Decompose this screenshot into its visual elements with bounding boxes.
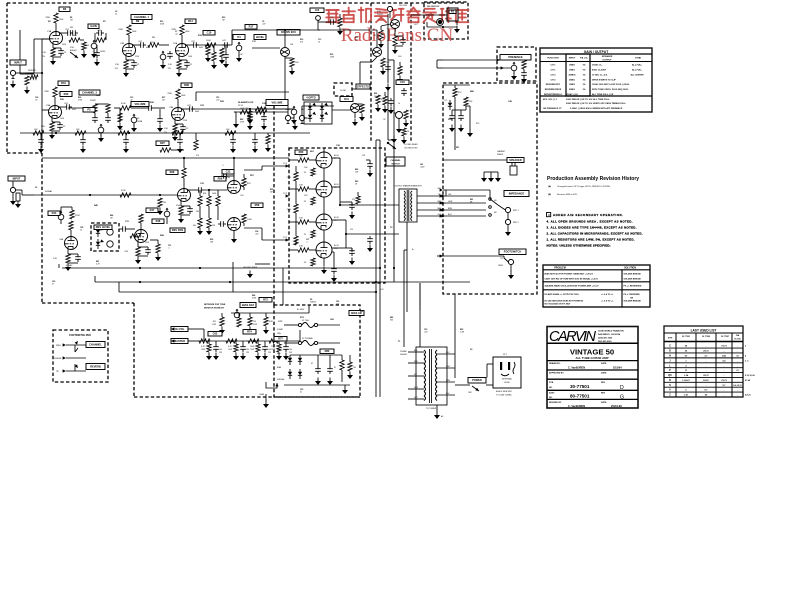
svg-text:(A): (A) <box>548 185 551 188</box>
ground tank shield <box>414 24 460 33</box>
svg-text:INPUT: INPUT <box>14 60 22 64</box>
svg-text:1MEG: 1MEG <box>569 70 575 72</box>
svg-text:63,67: 63,67 <box>703 380 709 382</box>
plate join wires power amp <box>332 158 399 248</box>
watermark chinese characters <box>326 8 468 23</box>
extra scatter labels 2 <box>35 10 473 394</box>
svg-text:100K: 100K <box>132 31 137 33</box>
svg-text:10: 10 <box>318 42 320 44</box>
label channel switch <box>386 157 405 166</box>
connector tank RCA block <box>411 8 458 28</box>
pull bright pot <box>70 45 106 66</box>
jack panel extra wires <box>446 106 490 199</box>
svg-text:R72: R72 <box>263 298 268 302</box>
tube V4A reverb recovery <box>53 221 81 271</box>
svg-text:C34: C34 <box>255 230 258 233</box>
svg-text:WITH TONE CIRCS. PLUS SEQ 10: WITH TONE CIRCS. PLUS SEQ 100% <box>592 89 628 91</box>
svg-text:10 VAC CL. A.S.: 10 VAC CL. A.S. <box>592 73 608 76</box>
svg-text:R27: R27 <box>160 141 165 145</box>
misc labels sprinkle <box>35 21 513 351</box>
jack J4 return <box>292 106 334 130</box>
resistor R2 bus shunt <box>157 198 166 215</box>
svg-text:V10: V10 <box>334 248 337 250</box>
svg-text:50/60HZ: 50/60HZ <box>400 354 408 356</box>
svg-text:R47: R47 <box>96 260 99 263</box>
capacitor C21 <box>146 105 165 111</box>
jack J1 input high <box>10 39 50 94</box>
svg-text:RING: RING <box>56 345 61 347</box>
labels tone network inputs <box>171 327 204 344</box>
svg-text:PHONO: PHONO <box>377 14 384 16</box>
svg-text:100Ω 1/2W: 100Ω 1/2W <box>258 108 267 110</box>
wire heater drops <box>300 267 381 283</box>
svg-text:.02: .02 <box>35 100 38 102</box>
svg-text:HUM BAL: HUM BAL <box>277 378 285 381</box>
svg-text:REVERB RET.: REVERB RET. <box>546 84 561 86</box>
svg-text:REV PAN: REV PAN <box>172 228 183 232</box>
svg-text:C12: C12 <box>330 17 333 19</box>
label tone boxes <box>208 311 364 342</box>
svg-text:30-77501: 30-77501 <box>682 336 690 338</box>
svg-text:R17: R17 <box>249 25 254 29</box>
svg-text:FERRITE: FERRITE <box>28 70 36 72</box>
svg-text:SWITCH: SWITCH <box>391 164 400 166</box>
svg-text:6.3VAC: 6.3VAC <box>66 264 73 267</box>
cabinet speaker connector <box>481 150 524 182</box>
svg-text:P6: P6 <box>137 118 139 120</box>
svg-text:16L7G24: 16L7G24 <box>399 5 408 7</box>
svg-text:VOLUME: VOLUME <box>271 100 282 104</box>
label GAIN <box>88 24 99 58</box>
tube V3B stage <box>164 83 200 141</box>
svg-text:NO LED INDICATOR DOES NOT POWE: NO LED INDICATOR DOES NOT POWER IN. <box>545 299 584 302</box>
svg-text:V1A: V1A <box>47 30 52 33</box>
text production assembly revision history <box>547 176 639 196</box>
power transformer T1 <box>408 347 455 410</box>
svg-text:100: 100 <box>219 349 222 351</box>
svg-text:8VAC CL/DIST: 8VAC CL/DIST <box>592 69 607 72</box>
svg-text:(B): (B) <box>548 194 551 196</box>
svg-text:100: 100 <box>353 367 356 369</box>
tube V10 EL34 output 4 <box>316 230 332 274</box>
svg-text:NO.: NO. <box>549 397 553 399</box>
svg-text:R46: R46 <box>110 214 113 217</box>
resistor R16 series <box>205 40 216 47</box>
svg-text:CH 1: CH 1 <box>551 70 557 72</box>
svg-text:22: 22 <box>115 14 117 16</box>
svg-text:R3: R3 <box>63 7 67 11</box>
svg-text:1/2W: 1/2W <box>271 349 275 351</box>
svg-text:1%: 1% <box>582 79 585 81</box>
svg-text:6,8,21: 6,8,21 <box>745 395 751 397</box>
svg-text:.1: .1 <box>222 165 224 167</box>
svg-text:100K: 100K <box>185 31 190 33</box>
svg-text:100K: 100K <box>59 19 64 21</box>
capacitor C40 snubber <box>346 248 355 265</box>
row2 extra grounds <box>114 108 253 132</box>
svg-text:20JUL98: 20JUL98 <box>611 404 622 408</box>
svg-text:Changed heater CKT & type CKTS: Changed heater CKT & type CKTS, PER ECO … <box>557 185 611 188</box>
svg-text:220K: 220K <box>44 91 49 93</box>
label EFX loop level <box>254 30 300 40</box>
table problem solution <box>543 265 650 307</box>
svg-text:1-59,67: 1-59,67 <box>682 380 690 382</box>
footswitch pedal contents <box>54 340 105 373</box>
svg-text:B+ 445V: B+ 445V <box>297 309 305 311</box>
svg-text:CHANNEL: CHANNEL <box>390 159 401 162</box>
svg-text:CANT GET RID OF HUM WITH 60Hz: CANT GET RID OF HUM WITH 60Hz IN SIGNAL … <box>545 277 599 280</box>
svg-text:.02: .02 <box>175 34 178 36</box>
svg-text:R14: R14 <box>188 19 193 23</box>
svg-text:F1 T4A: F1 T4A <box>302 319 309 322</box>
label channel 2 <box>79 90 100 95</box>
svg-text:ADDED A/B SECONDARY OPERATION.: ADDED A/B SECONDARY OPERATION. <box>553 213 623 217</box>
svg-text:T1 POWER: T1 POWER <box>426 408 437 410</box>
tone network shunt clusters <box>199 339 293 360</box>
label CHANNEL 1 <box>131 15 152 20</box>
svg-text:CHANNEL: CHANNEL <box>89 342 102 346</box>
wire PI outputs to power amp <box>244 166 289 240</box>
row1 extra components <box>203 25 257 70</box>
svg-text:YEL: YEL <box>438 194 441 196</box>
svg-text:1/2W: 1/2W <box>253 324 257 326</box>
svg-text:FOOTSWITCH PED: FOOTSWITCH PED <box>69 334 91 337</box>
svg-text:B+: B+ <box>412 249 414 251</box>
svg-text:DATE: DATE <box>601 372 607 375</box>
svg-text:DATE: DATE <box>601 362 607 365</box>
svg-text:2. ALL CAPACITORS IN MICROFAR: 2. ALL CAPACITORS IN MICROFARADS, EXCEPT… <box>547 231 643 235</box>
svg-text:1MEG: 1MEG <box>569 84 575 86</box>
svg-text:LOOP: LOOP <box>340 90 347 92</box>
svg-text:470: 470 <box>350 229 353 231</box>
capacitor C15 reverb couple <box>385 62 403 83</box>
svg-text:2VAC RMS IN @1K TO 10V. ALL TO: 2VAC RMS IN @1K TO 10V. ALL TONE FULL. <box>566 98 610 101</box>
svg-text:ON PRESENCE CT.: ON PRESENCE CT. <box>543 108 562 110</box>
wire ground bus PI <box>119 262 270 292</box>
capacitor C51 filter <box>327 355 336 385</box>
ground chassis left <box>259 382 279 408</box>
svg-text:10VAC SUS DIST LOUD PLUS @: 10VAC SUS DIST LOUD PLUS @100% <box>592 83 629 86</box>
svg-text:100Ω 1/2W: 100Ω 1/2W <box>240 108 249 110</box>
svg-text:ALL TUBE GUITAR AMP: ALL TUBE GUITAR AMP <box>575 356 608 360</box>
diode D2 <box>298 355 302 365</box>
wire right column verticals <box>443 97 507 378</box>
wire row1 rail to fx <box>232 29 377 48</box>
svg-text:GAIN / OUTPUT: GAIN / OUTPUT <box>584 50 609 54</box>
svg-text:220K: 220K <box>167 93 172 95</box>
text notes list <box>547 213 643 248</box>
resistor R71 bias string <box>247 313 257 334</box>
svg-text:22: 22 <box>300 392 302 394</box>
label EQ <box>60 92 72 97</box>
svg-text:1%: 1% <box>582 70 585 72</box>
tube V8 EL34 output 2 <box>316 168 332 197</box>
svg-text:R48: R48 <box>156 219 161 223</box>
tube V2A gain stage <box>168 19 204 77</box>
opto attenuators in box <box>94 225 113 249</box>
resistor R53 B+ filter <box>172 129 183 153</box>
wire mains to switch <box>455 384 470 386</box>
svg-text:REV: REV <box>601 382 606 384</box>
resistor R35 mid <box>120 103 146 110</box>
svg-text:1%: 1% <box>582 65 585 67</box>
svg-text:6,10,12,34: 6,10,12,34 <box>745 374 755 377</box>
svg-text:R: R <box>669 379 671 382</box>
label VOLUME <box>266 100 297 125</box>
svg-text:SOLDER BRIDGE: SOLDER BRIDGE <box>624 300 642 302</box>
resistor R11 link <box>148 42 169 47</box>
resistor R80 dropper <box>278 321 344 382</box>
label REV <box>48 211 60 216</box>
dashed box opto attenuator <box>91 223 119 251</box>
svg-text:C62: C62 <box>213 332 218 336</box>
resistor R25 emitter rev <box>392 36 406 58</box>
svg-text:SOLUTION: SOLUTION <box>624 267 636 269</box>
svg-text:INPUT: INPUT <box>13 176 21 180</box>
reverb driver extra <box>375 80 409 133</box>
jack J9 speaker 2 <box>505 213 520 236</box>
svg-text:FILAMENTS FOR: FILAMENTS FOR <box>238 101 254 104</box>
svg-text:P5: P5 <box>87 108 91 112</box>
transistor Q1 send buffer <box>252 48 290 63</box>
svg-text:47: 47 <box>334 367 336 369</box>
svg-text:1/2W: 1/2W <box>228 349 232 351</box>
svg-text:OR: OR <box>630 298 634 300</box>
svg-text:SAN DIEGO, CA 92128: SAN DIEGO, CA 92128 <box>598 333 621 336</box>
svg-text:29,31: 29,31 <box>703 351 709 353</box>
svg-text:J10: J10 <box>315 8 320 12</box>
svg-text:A: A <box>548 213 550 217</box>
svg-text:2/15/94: 2/15/94 <box>613 366 622 370</box>
svg-text:C41: C41 <box>420 163 423 166</box>
svg-text:BIAS SETS 4X FOR POWER TUBES B: BIAS SETS 4X FOR POWER TUBES BUT +/-20mV <box>545 272 594 275</box>
svg-text:ALL FULL: ALL FULL <box>632 69 643 72</box>
wire mixer to PI <box>188 187 228 193</box>
svg-text:TONE: TONE <box>635 58 642 60</box>
resistor R50 B+ filter <box>33 129 44 153</box>
resistor R54 B+ filter <box>225 129 236 153</box>
svg-text:C: C <box>669 345 671 348</box>
svg-text:R38: R38 <box>184 83 189 87</box>
svg-text:470K: 470K <box>150 42 155 44</box>
svg-text:6.3VAC: 6.3VAC <box>277 328 284 331</box>
svg-text:EL34: EL34 <box>334 245 338 247</box>
resistor R57 PI plate <box>241 174 252 190</box>
svg-text:1/2W: 1/2W <box>250 349 254 351</box>
svg-text:2MEG: 2MEG <box>569 79 575 81</box>
svg-text:V1-V5: V1-V5 <box>238 105 243 107</box>
wire row2 to volume <box>191 107 294 111</box>
svg-text:470K: 470K <box>121 190 126 192</box>
svg-text:NOTES: UNLESS OTHERWISE SPECIF: NOTES: UNLESS OTHERWISE SPECIFIED: <box>547 244 611 248</box>
svg-text:ALL CENTER: ALL CENTER <box>630 73 644 76</box>
svg-text:1-34: 1-34 <box>684 374 689 377</box>
pot P3 treble peak <box>160 51 173 69</box>
wire psu bottom <box>284 385 350 394</box>
svg-text:V3B: V3B <box>169 107 174 109</box>
svg-text:R60: R60 <box>299 150 304 154</box>
svg-text:C. VanBUREN: C. VanBUREN <box>568 366 585 370</box>
svg-text:DRIVE STARTS TO CLIP: DRIVE STARTS TO CLIP <box>592 78 616 81</box>
svg-text:1%: 1% <box>582 84 585 86</box>
svg-text:220K: 220K <box>118 29 123 31</box>
B+ decoupling rail <box>20 132 310 134</box>
table gain-output <box>540 48 652 112</box>
impedance switch <box>489 191 529 217</box>
svg-text:R74: R74 <box>247 330 252 334</box>
tube V7 EL34 output 1 <box>316 148 332 168</box>
svg-text:CH 2: CH 2 <box>551 79 557 81</box>
svg-text:R4: R4 <box>70 16 72 19</box>
svg-text:C4: C4 <box>115 10 117 13</box>
svg-text:30-77502: 30-77502 <box>702 336 710 338</box>
svg-text:FUNCTION: FUNCTION <box>547 58 559 60</box>
diode D1 <box>288 355 292 365</box>
svg-text:CH 1: CH 1 <box>551 65 557 67</box>
phase inverter resistor group <box>196 189 226 235</box>
jack J5 reverb drive out <box>387 5 408 18</box>
svg-text:.0047: .0047 <box>420 167 425 169</box>
svg-text:V7: V7 <box>334 158 336 160</box>
svg-text:220K: 220K <box>45 17 50 19</box>
psu box left labels <box>277 328 356 381</box>
power box extra caps <box>352 155 373 252</box>
svg-text:+/- 0.4 TO +/-: +/- 0.4 TO +/- <box>601 293 614 296</box>
fx loop upper jacks <box>310 8 343 35</box>
wire main input bus <box>34 194 177 196</box>
bias supply components <box>443 85 473 132</box>
wire tone bus lower <box>204 330 300 342</box>
svg-text:220K: 220K <box>75 215 80 217</box>
svg-text:CHANNEL 2: CHANNEL 2 <box>82 90 97 94</box>
dashed separator reverb driver section <box>371 3 411 142</box>
svg-text:120VAC: 120VAC <box>400 350 408 353</box>
svg-text:PO 3: PO 3 <box>283 237 287 239</box>
svg-text:PO 2: PO 2 <box>283 193 287 195</box>
opto channel switch block <box>303 95 332 124</box>
svg-text:(619) 487-1600: (619) 487-1600 <box>598 337 613 340</box>
svg-text:100: 100 <box>336 304 339 306</box>
svg-text:R56: R56 <box>218 177 223 181</box>
svg-text:4. ALL OPEN GROUNDS AREA: 4. ALL OPEN GROUNDS AREA , EXCEPT AS NOT… <box>547 219 633 223</box>
svg-text:TO LOAD 120VAC: TO LOAD 120VAC <box>496 393 512 396</box>
wire B+ row2 feed <box>196 92 289 101</box>
resistor R51 B+ filter <box>75 129 86 153</box>
watermark RadioFans.CN <box>341 25 454 46</box>
svg-text:470K: 470K <box>121 103 126 105</box>
svg-text:RING: RING <box>498 265 503 267</box>
resistor R18 emitter <box>285 58 299 75</box>
svg-text:5.2VAC @1KHZ A/W & SERIES WITH: 5.2VAC @1KHZ A/W & SERIES WITH 4PF FEEDB… <box>570 107 623 110</box>
svg-text:YEL: YEL <box>448 194 452 196</box>
svg-text:P4: P4 <box>237 35 241 39</box>
svg-text:V3A: V3A <box>46 104 51 107</box>
svg-text:C10: C10 <box>207 31 212 35</box>
dashed box right jack panel <box>443 83 537 294</box>
svg-text:100: 100 <box>289 349 292 351</box>
resistor R49 mix tail <box>150 240 161 261</box>
svg-text:NO AMP SIGNAL +/- OUTPUT AT: NO AMP SIGNAL +/- OUTPUT AT 100% <box>545 293 580 296</box>
transistor Q2 return buffer <box>372 40 382 62</box>
svg-text:POWER: POWER <box>472 378 482 382</box>
svg-text:SOLDER BRIDGE: SOLDER BRIDGE <box>624 278 642 280</box>
tube V9 EL34 output 3 <box>316 197 332 230</box>
footswitch jack <box>443 249 526 279</box>
svg-text:NETWORK FOR TONE: NETWORK FOR TONE <box>204 304 226 306</box>
pot P5 bass <box>83 108 104 143</box>
dashed box footswitch pedal <box>53 330 108 382</box>
svg-text:10: 10 <box>80 230 82 232</box>
svg-text:FOOTSWITCH: FOOTSWITCH <box>504 250 522 254</box>
svg-text:C33: C33 <box>226 170 231 174</box>
svg-text:100PF: 100PF <box>100 51 106 53</box>
ground chassis <box>434 405 444 419</box>
svg-text:R47: R47 <box>150 208 155 212</box>
svg-text:DATE: DATE <box>601 401 607 404</box>
svg-text:CHAS: CHAS <box>259 393 265 396</box>
svg-text:10: 10 <box>398 103 400 105</box>
svg-text:R41: R41 <box>344 97 349 101</box>
diode D4 <box>298 369 302 379</box>
tube V5B phase inverter A <box>226 158 241 194</box>
capacitor C3 / resistor R6 pair <box>95 30 106 42</box>
svg-text:CH2 SELECTED: CH2 SELECTED <box>404 147 418 149</box>
dashed box power supply fuse section <box>274 305 360 397</box>
svg-text:MONITOR STAND BY: MONITOR STAND BY <box>204 306 225 309</box>
svg-text:1-57: 1-57 <box>684 395 689 397</box>
svg-text:5-6,10,11: 5-6,10,11 <box>733 385 742 387</box>
dashed box loop jumper <box>334 83 352 96</box>
svg-text:C. VanBUREN: C. VanBUREN <box>568 404 585 408</box>
transistor Q4 switch driver <box>332 104 360 119</box>
resistor R28 mixer plate <box>156 133 198 189</box>
svg-text:100: 100 <box>246 349 249 351</box>
pot P8 mix <box>152 208 185 233</box>
svg-text:REV: REV <box>601 393 606 395</box>
svg-text:V9: V9 <box>334 220 336 222</box>
svg-text:R44: R44 <box>52 211 57 215</box>
screen resistors output stage <box>304 168 316 176</box>
filament supply network <box>233 101 288 130</box>
svg-text:INTERNAL: INTERNAL <box>502 378 513 381</box>
svg-text:R79: R79 <box>476 123 479 125</box>
pot P4 master <box>233 35 245 63</box>
svg-text:12340 WORLD TRADE DR.: 12340 WORLD TRADE DR. <box>598 330 625 333</box>
wire reverb vertical feeds <box>385 14 397 143</box>
svg-text:16L7G23 GC: 16L7G23 GC <box>427 6 440 8</box>
svg-text:SPK 1: SPK 1 <box>513 210 520 212</box>
svg-text:30-77507: 30-77507 <box>721 336 729 338</box>
svg-text:PRESENCE: PRESENCE <box>508 55 523 59</box>
svg-text:R58: R58 <box>255 203 260 207</box>
svg-text:V1B: V1B <box>120 43 125 45</box>
tube V1B gain stage <box>115 19 151 77</box>
svg-text:NO VOLTAGE ON P.T. BUT: NO VOLTAGE ON P.T. BUT <box>545 303 572 306</box>
svg-text:+/- 0.4 TO +/-: +/- 0.4 TO +/- <box>601 299 614 302</box>
svg-text:V8: V8 <box>334 187 336 189</box>
wire input riser <box>25 39 50 148</box>
svg-text:REVERB DRIVE: REVERB DRIVE <box>545 89 562 91</box>
svg-text:47,48: 47,48 <box>745 379 751 382</box>
svg-text:GAIN: GAIN <box>90 24 97 28</box>
svg-text:FUSE: FUSE <box>504 382 510 384</box>
svg-text:470: 470 <box>352 199 355 201</box>
wire extensions <box>59 87 420 310</box>
svg-text:BRN: BRN <box>448 208 453 210</box>
svg-text:ASSY.: ASSY. <box>549 392 555 395</box>
grid resistors output stage <box>289 156 316 163</box>
svg-text:CH 2: CH 2 <box>551 74 557 76</box>
